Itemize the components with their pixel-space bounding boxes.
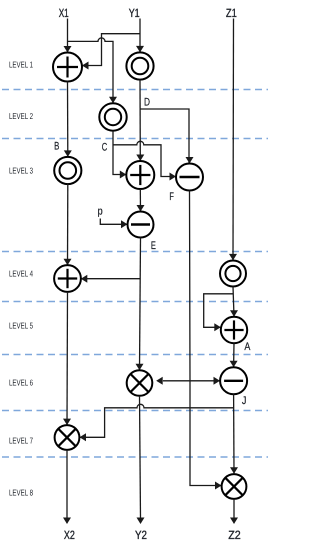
- svg-text:Y2: Y2: [135, 528, 147, 542]
- svg-text:D: D: [144, 97, 150, 109]
- level boundary dashed line 5: [2, 354, 268, 356]
- wire M3 output to Z2: [230, 499, 238, 524]
- wire Y1 into delay N1: [136, 19, 144, 53]
- subtractor F: [176, 164, 203, 191]
- svg-text:X2: X2: [64, 528, 75, 542]
- delay N2 (double circle): [99, 103, 126, 130]
- svg-text:LEVEL 2: LEVEL 2: [9, 111, 33, 121]
- svg-text:LEVEL 4: LEVEL 4: [9, 269, 33, 279]
- subtractor E: [128, 212, 154, 238]
- svg-text:Y1: Y1: [129, 6, 140, 20]
- node Z1 input label: [226, 6, 237, 20]
- wire E output into multiplier M1 (tee to U3): [136, 238, 144, 371]
- label LEVEL 7: [9, 436, 33, 446]
- label LEVEL 8: [9, 488, 33, 498]
- node X1 input label: [59, 6, 69, 20]
- adder U1: [53, 53, 82, 82]
- adder A: [221, 317, 247, 343]
- label LEVEL 4: [9, 269, 33, 279]
- wire N4 branch loop into adder A left: [204, 294, 233, 332]
- wire X1 branch to delay N2 (hop over Y1 branch): [68, 38, 118, 103]
- wire Z1 into delay N4: [229, 19, 237, 261]
- node X2 output label: [64, 528, 75, 542]
- level boundary dashed line 6: [2, 410, 268, 412]
- wire U2 output into subtractor E: [137, 189, 145, 212]
- node D label: [144, 97, 150, 109]
- wire F output junction into M1 right, J left and M3 left: [190, 191, 222, 490]
- wire M2 output to X2: [63, 450, 71, 524]
- svg-text:LEVEL 5: LEVEL 5: [9, 321, 33, 331]
- svg-text:Z2: Z2: [228, 528, 241, 542]
- adder U2: [126, 161, 154, 189]
- node E label: [151, 240, 156, 252]
- adder U3: [54, 265, 81, 292]
- svg-text:LEVEL 1: LEVEL 1: [9, 60, 33, 70]
- wire N1 output node D into adder U2: [136, 80, 144, 161]
- svg-text:LEVEL 3: LEVEL 3: [9, 166, 33, 176]
- svg-text:LEVEL 7: LEVEL 7: [9, 436, 33, 446]
- delay N4 (double circle): [220, 261, 246, 287]
- node Y1 input label: [129, 6, 140, 20]
- label LEVEL 6: [9, 378, 33, 388]
- node P input label: [98, 206, 103, 218]
- svg-text:p: p: [98, 206, 103, 218]
- wire U1 output to node B: [64, 82, 72, 157]
- wire X1 into adder U1: [64, 19, 72, 53]
- node A label: [244, 341, 251, 353]
- svg-text:J: J: [242, 395, 247, 407]
- svg-text:E: E: [151, 240, 156, 252]
- svg-text:X1: X1: [59, 6, 69, 20]
- label LEVEL 5: [9, 321, 33, 331]
- svg-text:LEVEL 6: LEVEL 6: [9, 378, 33, 388]
- wire N2 output node C into adder U2 left: [113, 131, 126, 179]
- multiplier M1: [127, 370, 153, 396]
- wire P into subtractor E left: [100, 219, 127, 229]
- level boundary dashed line 2: [2, 138, 268, 140]
- wire M1 output to Y2: [137, 396, 145, 524]
- node Z2 output label: [228, 528, 241, 542]
- delay N1 (double circle): [126, 52, 153, 79]
- label LEVEL 2: [9, 111, 33, 121]
- level boundary dashed line 1: [2, 89, 268, 91]
- level boundary dashed line 4: [2, 301, 268, 303]
- svg-text:A: A: [244, 341, 251, 353]
- label LEVEL 1: [9, 60, 33, 70]
- label LEVEL 3: [9, 166, 33, 176]
- wire N4 output into adder A top: [230, 287, 238, 317]
- node B label: [54, 140, 59, 152]
- wire J output into multiplier M3 (tee to M2): [230, 394, 238, 473]
- wire B delay output into adder U3: [64, 184, 72, 265]
- svg-text:C: C: [102, 141, 108, 153]
- subtractor J: [220, 367, 247, 394]
- wire F junction arrow into multiplier M1 right: [156, 377, 190, 385]
- svg-text:LEVEL 8: LEVEL 8: [9, 488, 33, 498]
- delay N3 (double circle, node B): [54, 157, 81, 184]
- level boundary dashed line 7: [2, 456, 268, 458]
- multiplier M2: [55, 425, 80, 450]
- wire E branch into adder U3 right: [81, 275, 140, 283]
- wire U3 output into multiplier M2: [63, 292, 71, 425]
- node F label: [169, 191, 174, 203]
- node J label: [242, 395, 247, 407]
- wire F junction arrow into subtractor J left: [190, 377, 220, 385]
- node C label: [102, 141, 108, 153]
- wire C branch into subtractor F left (hop over D wire): [113, 141, 176, 180]
- wire J branch into multiplier M2 right (hop over M1 output): [80, 404, 234, 441]
- wire A output into subtractor J: [230, 343, 238, 367]
- wire D branch into subtractor F: [140, 109, 194, 164]
- node Y2 output label: [135, 528, 147, 542]
- wire Y1 branch into adder U1 right: [82, 34, 140, 70]
- level boundary dashed line 3: [2, 251, 268, 253]
- svg-text:B: B: [54, 140, 59, 152]
- svg-text:Z1: Z1: [226, 6, 237, 20]
- multiplier M3: [222, 474, 247, 499]
- svg-text:F: F: [169, 191, 174, 203]
